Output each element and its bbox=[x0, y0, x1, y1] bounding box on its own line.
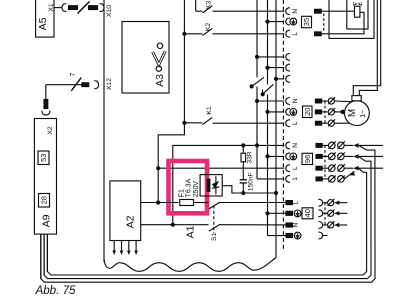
bus D (x=276) bbox=[275, 0, 277, 258]
node L branch bbox=[156, 166, 160, 170]
node row145 bbox=[255, 143, 259, 147]
wave tear A1 bottom bbox=[104, 258, 276, 272]
wire earth row 21.6 bbox=[265, 20, 284, 24]
contact K2 bbox=[184, 23, 284, 36]
plug group 40: pin L bbox=[286, 201, 300, 205]
motor supply risers bbox=[353, 0, 380, 96]
svg-text:F1: F1 bbox=[178, 189, 185, 197]
svg-text:M: M bbox=[347, 109, 358, 117]
socket row 78.9 bbox=[286, 75, 290, 82]
switch S1 bbox=[209, 202, 286, 241]
motor plug terminals bbox=[315, 99, 327, 125]
connector group 96: socket N bbox=[286, 142, 299, 149]
heater element bbox=[353, 2, 362, 17]
node K2 branch bbox=[182, 32, 186, 36]
earth symbol 35 bbox=[286, 18, 297, 25]
box A5 bbox=[36, 0, 54, 37]
wire earth to 40 bbox=[268, 212, 287, 214]
plug group 40: pin N bbox=[286, 222, 300, 227]
socket 40 row earth bbox=[318, 210, 347, 217]
pin label 28 bbox=[39, 194, 50, 208]
socket row 56.9 bbox=[286, 53, 290, 60]
svg-text:N: N bbox=[292, 143, 299, 148]
svg-text:250V: 250V bbox=[193, 181, 200, 197]
plug group 40: pin earth 2 bbox=[286, 232, 301, 239]
node N riser bbox=[171, 223, 175, 227]
svg-text:L: L bbox=[292, 166, 299, 170]
connector group 96: socket 1 bbox=[257, 175, 299, 182]
node cap bus bbox=[274, 191, 278, 195]
svg-text:K2: K2 bbox=[205, 23, 212, 32]
wire varistor to cap bbox=[222, 186, 243, 193]
socket 40 row L bbox=[318, 199, 347, 206]
svg-text:33R: 33R bbox=[247, 151, 254, 163]
valve slash circles 96 bbox=[329, 141, 345, 182]
earth symbol 96 bbox=[265, 153, 296, 160]
connector group 20: socket N bbox=[286, 98, 299, 105]
heater inner box bbox=[347, 0, 368, 29]
wire A2 to S1 lower bbox=[141, 224, 209, 226]
svg-text:L: L bbox=[292, 32, 299, 36]
svg-text:T6.3A: T6.3A bbox=[186, 178, 193, 197]
capacitor 150nF bbox=[240, 172, 255, 193]
svg-text:X12: X12 bbox=[106, 78, 113, 90]
svg-text:1: 1 bbox=[292, 177, 299, 181]
pin label 35 bbox=[302, 16, 312, 27]
A9 harness wires bbox=[41, 234, 48, 279]
svg-text:N: N bbox=[292, 9, 299, 14]
wire L row bbox=[158, 167, 284, 169]
pin label 53 bbox=[38, 151, 49, 165]
plug group 40: pin earth bbox=[286, 210, 301, 217]
svg-text:K3: K3 bbox=[205, 0, 212, 9]
bus X10/X12 bbox=[103, 0, 105, 262]
node earth 40 bbox=[265, 211, 269, 215]
svg-text:A2: A2 bbox=[125, 215, 137, 228]
bus B (x=257) bbox=[256, 0, 258, 179]
connector group 35: socket N bbox=[286, 8, 299, 15]
A2 output arrows bbox=[112, 241, 137, 256]
node fuse in bbox=[156, 200, 160, 204]
svg-text:96: 96 bbox=[303, 155, 312, 163]
svg-text:N: N bbox=[293, 222, 300, 227]
valve plug terminals 96 bbox=[316, 144, 328, 181]
svg-text:X10: X10 bbox=[106, 5, 113, 17]
wire N riser bbox=[173, 145, 284, 224]
pin label 40 bbox=[302, 208, 313, 219]
svg-text:L: L bbox=[293, 201, 300, 205]
svg-text:A5: A5 bbox=[37, 17, 49, 30]
svg-text:40: 40 bbox=[303, 209, 312, 217]
dashed connector boundary bbox=[282, 0, 284, 251]
box A2 bbox=[110, 181, 141, 241]
dashed linkage 40 bbox=[324, 203, 326, 225]
resistor 33R bbox=[241, 145, 254, 179]
node K1 branch bbox=[182, 121, 186, 125]
svg-text:L: L bbox=[292, 121, 299, 125]
contact K1 bbox=[184, 106, 284, 124]
svg-text:S1: S1 bbox=[211, 232, 218, 241]
svg-text:Abb. 75: Abb. 75 bbox=[35, 284, 77, 297]
svg-text:K1: K1 bbox=[206, 106, 213, 115]
connector group 96: socket L bbox=[286, 165, 299, 172]
wire X2 to X12 bbox=[42, 78, 99, 116]
connector group 35: socket L bbox=[286, 30, 299, 37]
motor M1 bbox=[334, 96, 369, 126]
contact on bus C bbox=[261, 84, 274, 96]
node C bottom bbox=[241, 191, 245, 195]
svg-text:20: 20 bbox=[303, 107, 312, 115]
socket 40 row earth 2 bbox=[318, 232, 327, 239]
bus C earth (x=267.5) bbox=[268, 0, 287, 236]
fuse F1 bbox=[141, 200, 209, 206]
bus K feed (x=184.4) bbox=[183, 0, 185, 123]
valve return wires 96 bbox=[41, 143, 383, 282]
svg-text:28: 28 bbox=[40, 196, 49, 204]
highlight frame (magenta) bbox=[169, 161, 208, 213]
contact K3 bbox=[196, 0, 285, 13]
connector group 20: socket L bbox=[286, 120, 299, 127]
pin label 20 bbox=[303, 106, 313, 118]
node R top bbox=[241, 143, 245, 147]
wire heater top bbox=[321, 10, 354, 12]
socket row 67.6 bbox=[286, 64, 290, 71]
wire row 56.9 bbox=[255, 55, 284, 59]
socket 40 row N bbox=[318, 221, 347, 228]
wire row 67.6 bbox=[265, 66, 284, 70]
svg-text:A1: A1 bbox=[185, 225, 197, 238]
svg-text:53: 53 bbox=[39, 154, 48, 162]
wire row 78.9 bbox=[274, 77, 284, 81]
wire 20 N bbox=[255, 99, 284, 103]
svg-text:X1: X1 bbox=[48, 3, 55, 12]
svg-text:A3: A3 bbox=[154, 74, 166, 87]
heater 35 plug terminals bbox=[315, 9, 324, 35]
wire heater bottom bbox=[321, 12, 364, 34]
svg-text:N: N bbox=[292, 98, 299, 103]
svg-text:A9: A9 bbox=[40, 214, 52, 227]
wire K1 to fuse branch bbox=[158, 123, 184, 203]
wire cap to bus bbox=[243, 192, 276, 194]
pin label 96 bbox=[302, 153, 313, 164]
contact on bus B bbox=[250, 77, 265, 88]
svg-text:1~: 1~ bbox=[360, 110, 367, 118]
value label F1 T6.3A 250V bbox=[178, 178, 200, 197]
svg-text:35: 35 bbox=[302, 18, 311, 26]
box A9 bbox=[34, 119, 56, 235]
varistor U bbox=[200, 175, 222, 196]
earth symbol 20 bbox=[265, 108, 296, 115]
connector X1 bbox=[54, 2, 104, 14]
svg-text:7: 7 bbox=[70, 72, 77, 76]
box A3 bbox=[122, 22, 169, 94]
heater R2 outer box bbox=[329, 0, 374, 38]
svg-text:X2: X2 bbox=[47, 126, 54, 135]
svg-text:150nF: 150nF bbox=[248, 172, 255, 191]
motor terminals slash circles bbox=[328, 97, 335, 126]
